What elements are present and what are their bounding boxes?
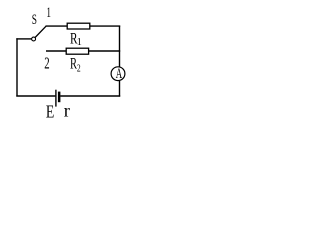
ammeter A [111, 67, 125, 81]
svg-text:r: r [64, 101, 70, 121]
wire: contact 2 to R2 left lead [46, 50, 67, 52]
switch S blade (thrown to contact 1) [35, 26, 46, 37]
wire: right vertical rail upper (top corner to ammeter) [119, 26, 121, 67]
battery cell: long positive plate [55, 90, 57, 107]
wire: bottom rail right (battery to right rail) [60, 95, 120, 97]
wire: pivot stub from left rail to switch pivot [16, 38, 31, 40]
svg-text:1: 1 [77, 37, 82, 48]
wire: top rail from R1 to top-right corner [90, 25, 120, 27]
wire: bottom rail left (to battery positive plate) [16, 95, 55, 97]
svg-text:S: S [32, 12, 37, 28]
wire: right vertical rail lower (ammeter to bottom rail) [119, 81, 121, 97]
svg-text:E: E [46, 101, 54, 121]
switch S pivot circle [32, 37, 36, 41]
wire: contact 1 to R1 left lead [46, 25, 68, 27]
resistor R2 [66, 48, 88, 54]
svg-text:2: 2 [77, 62, 81, 74]
resistor R1 [67, 23, 90, 29]
wire: R2 right lead to right rail [89, 50, 121, 52]
svg-text:1: 1 [46, 5, 51, 21]
svg-text:2: 2 [44, 54, 49, 73]
battery cell: short thick negative plate [58, 92, 61, 103]
svg-text:A: A [116, 66, 123, 82]
wire: left vertical rail [16, 38, 18, 96]
